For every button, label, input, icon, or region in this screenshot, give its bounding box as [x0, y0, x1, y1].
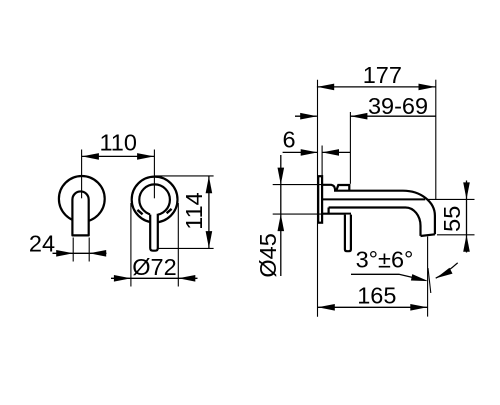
- svg-text:177: 177: [363, 62, 402, 88]
- dimension 39-69 line right segment: [350, 115, 435, 117]
- spout (front view) white mask: [150, 205, 158, 251]
- dimension 39-69 arrow right: [350, 113, 367, 120]
- dimension 24 extension line left: [72, 238, 74, 262]
- dimension 24 extension line right: [88, 238, 90, 262]
- svg-text:Ø45: Ø45: [255, 233, 281, 277]
- dimension 114 line: [208, 176, 210, 249]
- svg-text:55: 55: [439, 206, 465, 232]
- wall plate (side view): [318, 176, 322, 223]
- dimension 165 arrow right: [410, 304, 427, 311]
- svg-text:114: 114: [181, 192, 207, 229]
- dimension 39-69 arrow left (outside): [300, 113, 317, 120]
- svg-text:3°±6°: 3°±6°: [356, 247, 414, 273]
- dimension 24 arrow left (outside): [56, 250, 73, 257]
- dimension 39-69 extension line: [349, 112, 351, 184]
- dimension 110 arrow left: [82, 153, 99, 160]
- dimension D45 extension line bottom: [273, 213, 322, 215]
- dimension D45 arrow lower (outside): [278, 214, 285, 231]
- svg-text:6: 6: [282, 127, 295, 153]
- spout escutcheon inner circle: [139, 184, 170, 215]
- svg-text:165: 165: [357, 283, 396, 309]
- handle lever (front view): [72, 191, 88, 235]
- dimension 55 arrow bottom (outside): [463, 235, 470, 252]
- dimension 165 line: [318, 306, 428, 308]
- dimension 55 arrow top (outside): [463, 182, 470, 199]
- escutcheon tick mark lower-right: [167, 209, 172, 213]
- dimension D72 extension line right: [177, 203, 179, 287]
- lever (side view): [345, 215, 351, 252]
- dimension 55 extension line top: [426, 198, 475, 200]
- dimension 6 line left segment: [283, 151, 318, 153]
- dimension 55 extension line bottom: [437, 234, 475, 236]
- dimension 165 arrow left: [318, 304, 335, 311]
- dimension 114 extension line bottom: [158, 247, 214, 249]
- valve body top bump: [336, 185, 349, 191]
- dimension 6 arrow left (outside): [301, 149, 318, 156]
- dimension 6 line right segment: [322, 151, 350, 153]
- dimension 6 arrow right (outside): [322, 149, 339, 156]
- svg-text:110: 110: [99, 130, 136, 156]
- dimension 110 extension line right (spout centerline): [153, 150, 155, 199]
- spout top contour: [334, 191, 435, 235]
- dimension 110 line: [82, 155, 155, 157]
- dimension 110 extension line left (handle centerline): [81, 150, 83, 199]
- dimension 177 extension line right: [435, 80, 437, 200]
- angle leader line: [351, 274, 425, 280]
- dimension 177 arrow left: [317, 84, 334, 91]
- dimension 24 line: [53, 252, 107, 254]
- escutcheon tick mark lower-left: [137, 210, 142, 214]
- escutcheon sleeve top edge: [322, 185, 335, 191]
- dimension D45 arrow upper (outside): [278, 168, 285, 185]
- dimension D72 extension line left: [130, 203, 132, 287]
- spout bottom contour: [329, 208, 421, 236]
- dimension D72 arrow right (outside): [178, 275, 195, 282]
- dimension 110 arrow right: [137, 153, 154, 160]
- dimension 114 extension line top: [155, 175, 214, 177]
- dimension 55 line: [466, 181, 468, 253]
- dimension 114 arrow top: [206, 176, 213, 193]
- dimension 177 arrow right: [419, 84, 436, 91]
- dimension D45 line upper: [280, 155, 282, 276]
- angle tilted line (3 deg): [428, 268, 431, 293]
- angle leader arrow: [411, 274, 428, 281]
- dimension D45 extension line top: [273, 184, 322, 186]
- angle arc arrow: [436, 268, 453, 279]
- svg-text:24: 24: [29, 231, 55, 257]
- dimension 39-69 line left segment: [295, 115, 317, 117]
- valve body step bottom: [328, 208, 330, 214]
- spout outlet bottom edge (3 deg tilt): [421, 234, 435, 236]
- dimension D72 arrow left (outside): [114, 275, 131, 282]
- spout (front view) outline: [150, 214, 158, 251]
- svg-text:39-69: 39-69: [368, 93, 428, 119]
- angle reference vertical line: [427, 237, 429, 317]
- dimension 177 line: [317, 86, 436, 88]
- svg-text:Ø72: Ø72: [132, 254, 176, 280]
- dimension 114 arrow bottom: [206, 231, 213, 248]
- handle escutcheon circle: [59, 176, 105, 222]
- escutcheon sleeve bottom edge: [322, 213, 351, 215]
- wall reference line: [317, 80, 319, 317]
- dimension 24 arrow right (outside): [89, 250, 106, 257]
- angle arc: [436, 263, 458, 278]
- dimension 6 extension line (plate face): [321, 146, 323, 176]
- dimension D72 line: [111, 277, 198, 279]
- spout escutcheon outer circle: [132, 177, 178, 223]
- spout middle contour line: [322, 198, 425, 200]
